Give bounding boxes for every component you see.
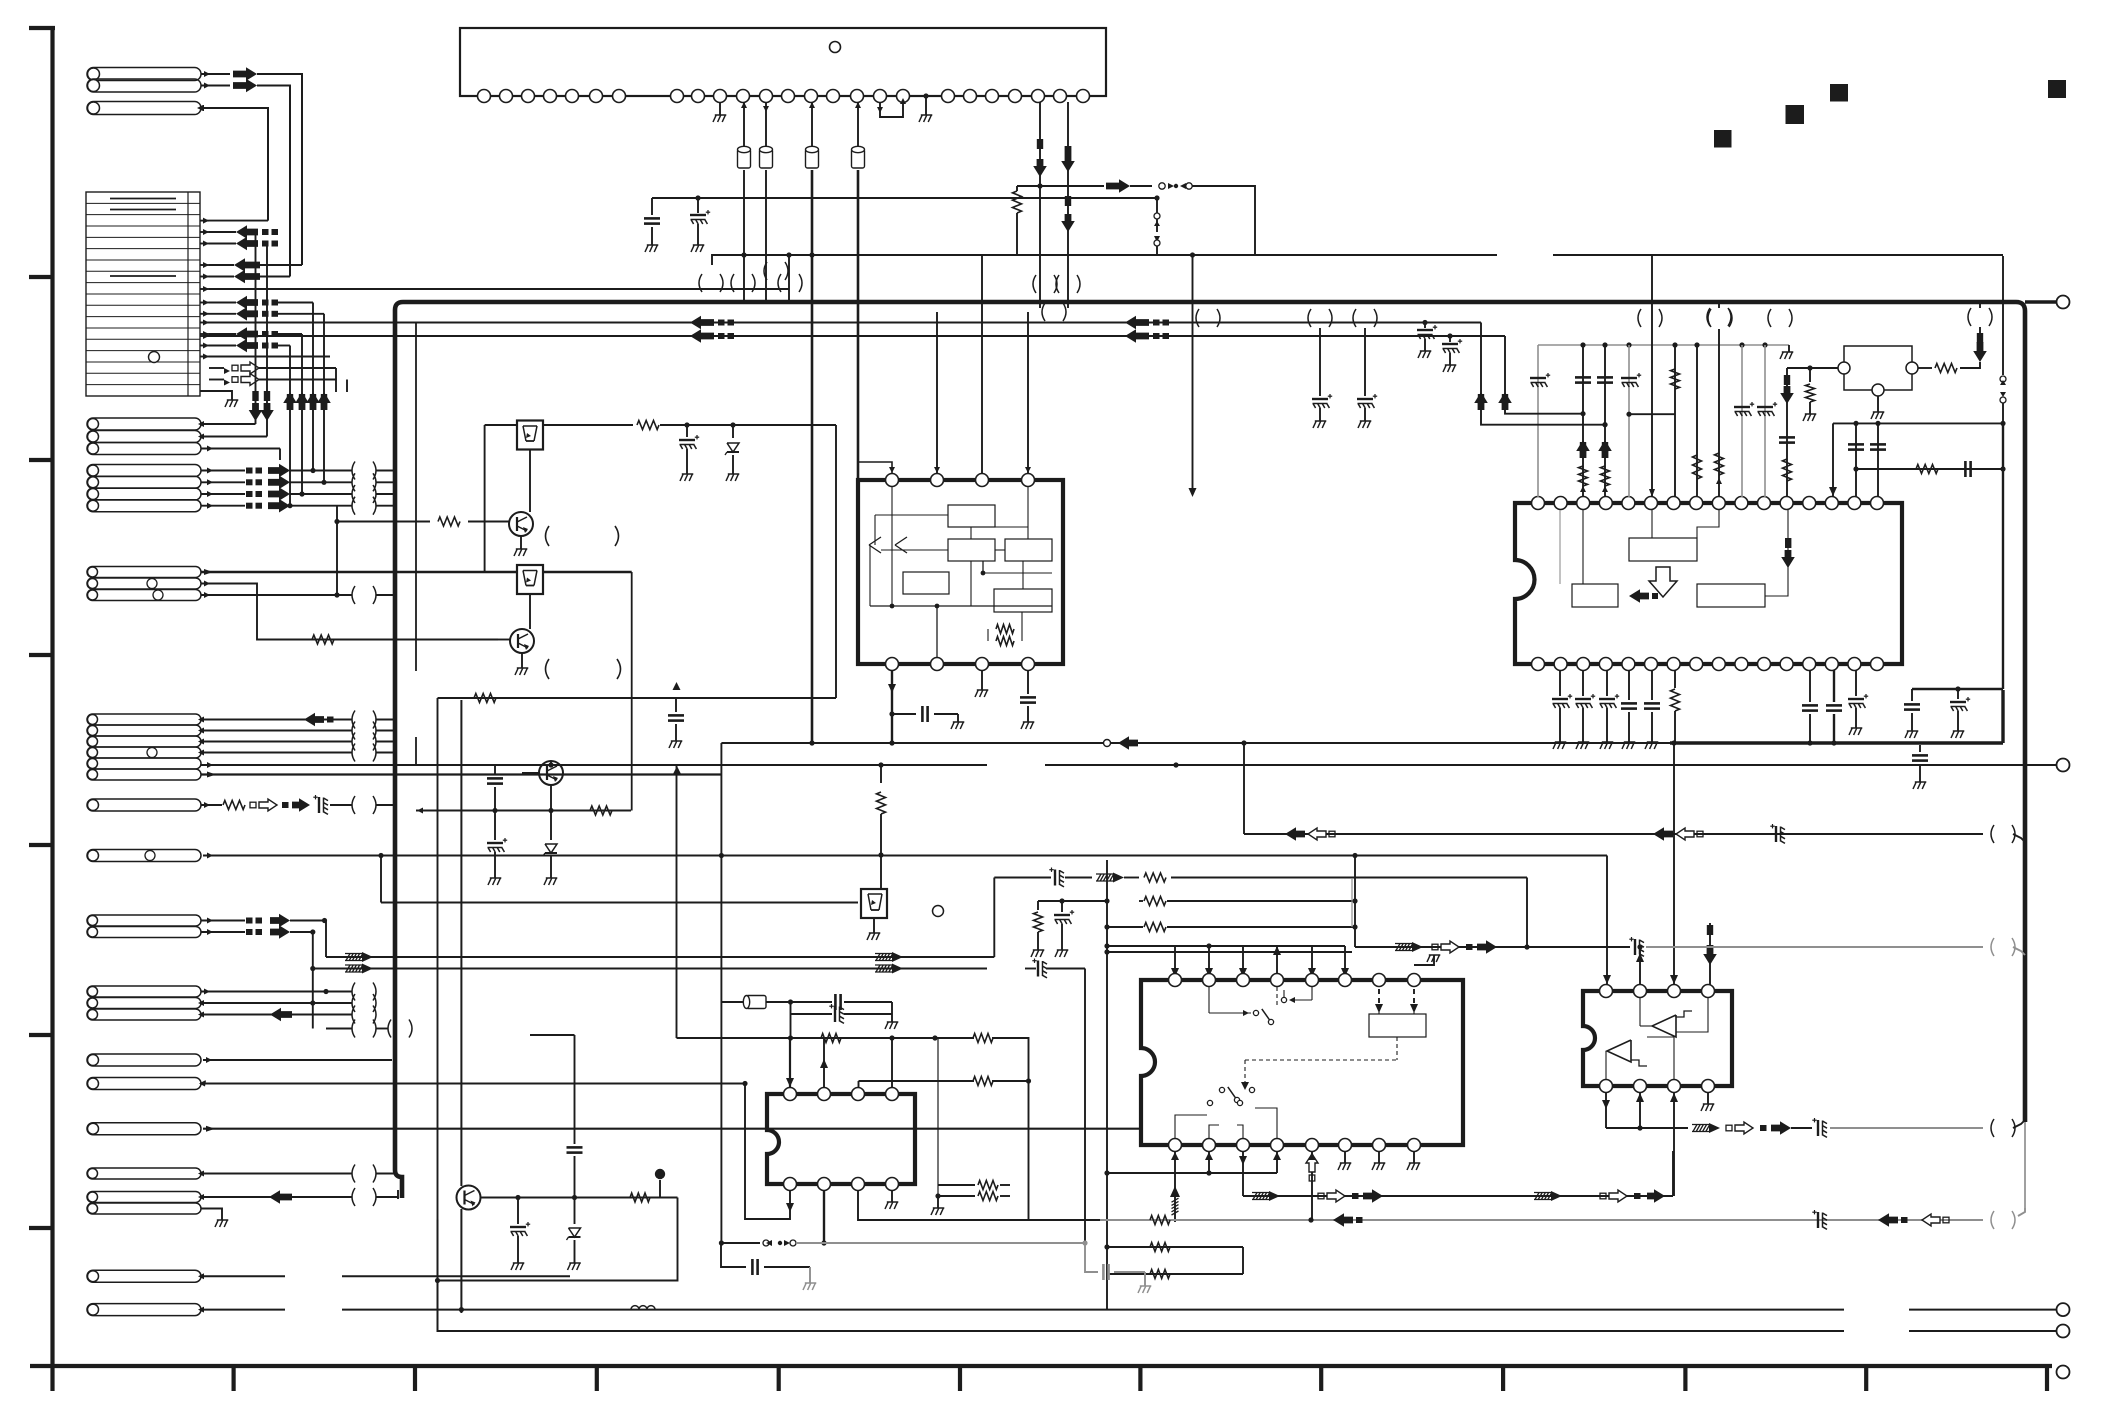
U3 internal open arrow xyxy=(1649,567,1677,597)
CN3 key lines xyxy=(110,198,176,200)
U3 bottom caps right xyxy=(1809,670,1811,702)
capacitor C13 xyxy=(892,713,916,715)
indicator circle inside U1 xyxy=(830,42,841,53)
U6 pin4 ground xyxy=(891,1190,893,1202)
CN15 row3 ground xyxy=(201,1209,222,1221)
capacitor C1 with ground xyxy=(651,198,653,215)
U3 bottom decoupling: electrolytics xyxy=(1559,670,1561,696)
transistor Q2 xyxy=(529,594,531,629)
CN11 row5 wire long xyxy=(201,764,416,766)
wire y952 plain xyxy=(1107,951,1352,953)
long wire y765 right segment xyxy=(1045,764,2056,766)
vertical rise wires from connector group B xyxy=(289,346,291,506)
U4 bottom pins xyxy=(1169,1139,1182,1152)
capacitor C32 xyxy=(834,994,837,1010)
vertical monitor stub x1192 xyxy=(1192,255,1194,488)
U3 bottom resistor to rail xyxy=(1674,670,1676,688)
wire to bus xyxy=(1192,186,1255,256)
electrolytic C33 xyxy=(791,1013,833,1015)
border ruler bottom xyxy=(30,1364,2052,1368)
power entry far right top xyxy=(1718,304,1720,308)
inline connector small circles xyxy=(1159,183,1165,189)
U5 top pins xyxy=(1600,985,1613,998)
U2 pin feed wires xyxy=(858,462,892,473)
hanging cap pair mid-span xyxy=(1422,320,1427,325)
connector pin CN6-2 xyxy=(87,578,201,589)
CN11 row2-4 wires xyxy=(201,730,352,732)
connector group CN11 xyxy=(87,714,201,725)
CN3 rows to bus arrows group3 xyxy=(200,302,209,304)
IC U1 microcontroller box xyxy=(460,28,1106,96)
U1 pin circles xyxy=(478,90,491,103)
U4 feed dashed xyxy=(1378,980,1380,1010)
wires CN4 xyxy=(201,423,256,425)
CN14 drop wires to pair xyxy=(326,1028,352,1030)
connector pin CN12 chain xyxy=(87,799,201,811)
U4 top pins xyxy=(1169,974,1182,987)
wire y927 resistor xyxy=(1107,926,1143,928)
CN3 long wires into block xyxy=(200,322,209,324)
long wire pair with fat left arrows upper xyxy=(204,322,1481,324)
annotation parens Q2 xyxy=(546,659,550,679)
vertical wire x437 xyxy=(437,698,439,1331)
CN5 wires with hatched fat arrows to coil pairs xyxy=(201,470,245,472)
U4 internal dashed routing xyxy=(1396,1037,1398,1060)
connector pin CN1-1 xyxy=(87,68,201,81)
U6 feed wires xyxy=(789,1038,791,1087)
U3 feed lines with electrolytics right xyxy=(1741,345,1743,497)
wire left feeds x1481 xyxy=(1481,323,1607,425)
resonator X1 xyxy=(743,102,745,147)
connector circle right y765 xyxy=(2057,759,2070,772)
connector pin CN2 xyxy=(87,102,201,115)
long wire y765 left segment xyxy=(416,764,987,766)
IC U2 box xyxy=(858,480,1063,664)
transistor Q5 in box xyxy=(861,889,887,918)
U4 internal switch block bottom xyxy=(1219,1087,1224,1092)
U6 pin2 wire to connector row xyxy=(823,1190,825,1243)
inline connector pairs row A xyxy=(699,274,702,292)
U5 feed arrows xyxy=(1606,856,1608,986)
spark gap protector xyxy=(1156,198,1158,213)
U6 top pins xyxy=(784,1088,797,1101)
wire pin22 to right header xyxy=(1040,185,1104,187)
IC U5 box xyxy=(1583,991,1732,1086)
electrolytic C12 with ground xyxy=(494,811,496,841)
U5 internal buffers xyxy=(1652,1015,1676,1037)
comparator block CP1 xyxy=(1844,346,1912,390)
CN6 row2 wire xyxy=(201,584,430,640)
capacitor C10 electrolytic xyxy=(686,425,688,437)
power entry top right xyxy=(1979,304,1981,308)
IC U4 box xyxy=(1141,980,1463,1145)
resistor R10 xyxy=(312,635,334,644)
U3 gray feed rail xyxy=(1538,344,1789,346)
wire y469 resistor cap link xyxy=(1856,468,2003,470)
U3 feed line 7 resistor low xyxy=(1696,345,1698,497)
CN3 row wires with fat left arrows group1 xyxy=(200,231,209,233)
wire y1083 long xyxy=(203,1083,745,1085)
Q7 base loop xyxy=(480,1197,678,1199)
black square marker 2 xyxy=(1786,105,1805,124)
connector pin CN10 xyxy=(87,1123,201,1135)
connector block CN3 xyxy=(86,192,200,396)
inline connector pairs row B xyxy=(1033,275,1036,293)
connector pin CN16 xyxy=(87,1270,201,1282)
wire y810 row xyxy=(416,810,631,812)
resistor network right of U6 xyxy=(937,1038,939,1196)
junction and ground right of U1 pins xyxy=(923,93,928,98)
connector group CN14 xyxy=(87,986,201,997)
connector pin CN5-4 xyxy=(87,500,201,512)
long wire y1309 xyxy=(342,1309,1844,1311)
U5 bottom wires xyxy=(1605,1092,1607,1128)
U3 feed down arrow line 14 xyxy=(1832,423,1834,497)
U6 pin1 loop wire xyxy=(745,1084,790,1220)
Q5 ground xyxy=(873,918,875,933)
Q3 base feed vertical xyxy=(484,425,486,572)
capacitor C31 top xyxy=(530,1034,575,1036)
wire y957 with hatched arrows xyxy=(326,956,994,958)
CP1 left wire resistor to ground xyxy=(1787,367,1838,369)
long wire lower with fat left arrows xyxy=(204,335,1505,337)
drop wire x1085 xyxy=(1084,969,1086,1244)
wire x462 drop xyxy=(460,700,462,1186)
bus thick horizontal with rounded corner xyxy=(395,302,2025,1122)
drop from pair 1365 with cap xyxy=(1364,328,1366,396)
drop from pair 1320 with cap xyxy=(1319,328,1321,396)
connector pin CN4-3 xyxy=(87,443,201,455)
U4 bottom pin wires xyxy=(1174,1151,1176,1222)
wire y855 long xyxy=(203,855,1607,857)
wire y834 long with left arrows xyxy=(1244,833,1983,835)
wire into Q5 box xyxy=(381,902,858,904)
gray supply row y1243 xyxy=(721,1242,760,1244)
transistor Q1 xyxy=(337,521,430,523)
annotation circle xyxy=(933,906,944,917)
wire y1060 feed xyxy=(203,1059,392,1061)
resistor network right of Q5 xyxy=(1038,900,1107,902)
CN3 white arrow rows xyxy=(209,367,224,369)
black square marker 4 xyxy=(2048,80,2066,98)
wire CN1-2 with fat arrow xyxy=(201,85,230,87)
resistor R2 on pin22 branch xyxy=(1013,191,1022,213)
connector pin CN6-1 xyxy=(87,567,201,578)
far right cap xyxy=(1919,745,1921,752)
CP1 right wire resistor xyxy=(1918,367,1932,369)
U3 feed line 1 with electrolytic xyxy=(1537,345,1539,497)
wire from U1 pin 24 with arrow down xyxy=(1067,102,1069,308)
U2 internal transistor pair xyxy=(875,514,948,516)
U4 feed verticals xyxy=(1174,946,1176,974)
black square marker 3 xyxy=(1830,84,1848,102)
long wire output row mid xyxy=(721,742,1670,744)
connector pin CN9 xyxy=(87,1078,201,1090)
U2 bottom pins xyxy=(886,658,899,671)
U4 internal register block xyxy=(1369,1014,1426,1037)
cap C22 on supply row xyxy=(1085,1243,1098,1272)
caps on y423 wire xyxy=(1855,423,1857,497)
U6 bottom pins xyxy=(784,1178,797,1191)
wire y968 with hatched arrows xyxy=(313,968,987,970)
resonator X4 xyxy=(857,102,859,147)
wire y1173 xyxy=(1107,1172,1277,1174)
wire y878 chain to resistor xyxy=(994,877,1051,879)
ground top right of U4 xyxy=(1414,955,1434,965)
zener D2 with ground xyxy=(550,811,552,841)
U3 feed line 5 from bus xyxy=(1651,256,1653,497)
capacitor C2 electrolytic with ground xyxy=(697,198,699,213)
resonator X3 xyxy=(811,102,813,147)
capacitor C11 xyxy=(494,764,496,775)
wire CN1-1 to bus with fat arrow xyxy=(201,73,230,75)
vertical drop wires to connector group A xyxy=(255,232,257,424)
IC U3 box xyxy=(1515,503,1902,664)
oscillator feedback resistors xyxy=(677,1037,975,1039)
electrolytic C30 with ground xyxy=(517,1198,519,1225)
U2 internal wires xyxy=(970,527,972,539)
bus thick vertical left xyxy=(395,310,402,1198)
U3 internal wires xyxy=(1651,510,1653,538)
Q3 collector wire right xyxy=(543,424,633,426)
Q2 emitter chain xyxy=(550,785,552,811)
resistor R12 xyxy=(438,697,837,699)
wire y1128 chain right xyxy=(1606,1127,1640,1129)
fat arrow right to connector row xyxy=(1106,179,1130,193)
connector pin CN17 xyxy=(87,1304,201,1316)
digital transistor Q4 box xyxy=(517,565,543,594)
CN3 plain row wires xyxy=(200,220,209,222)
U3 feed line 6 resistor xyxy=(1674,345,1676,497)
black square marker 1 xyxy=(1714,130,1732,148)
U3 feed line 2 cap fat-arrow resistor xyxy=(1582,345,1584,497)
ground pin 3 of U1 xyxy=(719,102,721,115)
U3 top pin circles xyxy=(1532,497,1545,510)
spark gap right bus xyxy=(2002,256,2004,375)
connector pin CN1-2 xyxy=(87,79,201,92)
U3 feed line 3 cap fat-arrow resistor xyxy=(1604,345,1606,497)
drop from y855 to transistor row xyxy=(880,855,882,890)
U3 internal fat down arrow xyxy=(1785,538,1791,548)
connector pin CN4-1 xyxy=(87,418,201,430)
resistor rows left of U4 xyxy=(1150,1216,1170,1225)
U3 internal fat arrow xyxy=(1629,589,1649,603)
U3 feed line 8 long with resistor xyxy=(1718,329,1720,497)
resistor R20 on x881 xyxy=(880,765,882,783)
fat down arrow to U5 xyxy=(1709,923,1711,985)
gray continuation of right bus xyxy=(2024,1122,2026,1208)
vertical x1107 xyxy=(1106,860,1108,946)
transistor Q2b xyxy=(539,761,563,785)
wire CN2 return xyxy=(204,108,268,221)
resonator X2 xyxy=(765,102,767,147)
vertical x416 xyxy=(415,323,417,672)
wire y1128 thick long xyxy=(203,1128,1141,1130)
U2 internal resistors xyxy=(996,625,1014,634)
wire to digital transistor Q3 xyxy=(485,424,517,426)
connector pin CN5-2 xyxy=(87,476,201,488)
U3 feed line 4 electrolytic xyxy=(1628,345,1630,497)
crystal oscillator X5 xyxy=(721,1001,744,1003)
CP1 ground xyxy=(1877,396,1879,412)
U3 internal blocks xyxy=(1629,538,1697,561)
CN11 row6 wire thick xyxy=(201,773,722,775)
U2 top pins xyxy=(886,474,899,487)
wire left feeds x1505 xyxy=(1505,336,1583,414)
connector group CN15 xyxy=(87,1168,201,1179)
connector group CN13 xyxy=(87,915,201,926)
U5 bottom pins xyxy=(1600,1080,1613,1093)
Q4 collector loop xyxy=(631,572,633,811)
wire from U1 pin 22 with arrows down xyxy=(1039,102,1041,308)
U6 pin3 wire xyxy=(858,1190,1100,1220)
CN3 big fat arrows group2 xyxy=(200,264,209,266)
capacitor C21 to ground xyxy=(721,1243,746,1267)
connector circle bottom-right xyxy=(2057,1366,2070,1379)
connector pin CN4-2 xyxy=(87,431,201,443)
connector pin CN5-3 xyxy=(87,488,201,500)
CN3 circle marker xyxy=(149,352,160,363)
vertical x1352 gray xyxy=(1351,878,1353,927)
U2 internal block diagram xyxy=(948,505,995,527)
wire y947 long with right arrows xyxy=(1352,853,1357,858)
border ruler left xyxy=(50,28,54,1391)
chain row y1196 xyxy=(1243,1195,1673,1197)
long wire y1331 xyxy=(438,1220,1845,1331)
wire y1220 gray long xyxy=(1100,1219,1983,1221)
thick vertical x722 xyxy=(720,743,722,1243)
wire x836 from Q3 row xyxy=(812,424,836,426)
transistor Q7 xyxy=(457,1186,481,1210)
connector pin CN8 xyxy=(87,1054,201,1066)
CN11 row1 wire fat arrow xyxy=(201,719,352,721)
wire right mid elbow xyxy=(1912,688,2003,690)
U2 bottom pin1 wire xyxy=(891,670,893,743)
U4 bottom grounds xyxy=(1344,1151,1346,1163)
top-right wire y423 xyxy=(1833,422,2003,424)
CN6 row3 wire to pair xyxy=(201,594,352,596)
wire U1 pin loop xyxy=(880,102,903,117)
annotation parens Q1 xyxy=(546,526,550,546)
connector pin CN5-1 xyxy=(87,465,201,477)
test point bullet 2 xyxy=(659,1180,661,1198)
drop wire x789 xyxy=(788,255,790,301)
CN3 ground lug xyxy=(200,391,232,400)
CN6 thick signal wire xyxy=(201,571,517,573)
diode D1 xyxy=(732,425,734,438)
zener D4 with ground xyxy=(574,1198,576,1225)
connector pin CN6-3 xyxy=(87,590,201,601)
resistor R11 xyxy=(637,421,659,430)
U2 bottom grounds xyxy=(981,670,983,690)
U3 bottom pin circles xyxy=(1532,658,1545,671)
inline connector pairs row C on bus xyxy=(1196,309,1199,327)
IC U6 box xyxy=(767,1094,915,1184)
wire y946 U4 feed xyxy=(1107,945,1345,947)
U3 bottom electrolytic right xyxy=(1855,670,1857,696)
capacitor C14 with ground xyxy=(673,682,681,690)
connector circle right top xyxy=(2057,296,2070,309)
transistor Q3 digital in box xyxy=(517,421,543,450)
wire node B4 to base xyxy=(336,506,338,595)
wire VCC node xyxy=(652,197,1157,199)
U4 internal switch block top xyxy=(1208,987,1210,1013)
U3 feed line 12 arrow cap resistor chain xyxy=(1786,368,1788,497)
inline connector pair top right xyxy=(1707,308,1710,326)
connector pin CN7 xyxy=(87,850,201,862)
U3 bottom caps xyxy=(1628,670,1630,700)
arrow stub on supply wire xyxy=(673,766,681,774)
bus wire horizontal mid xyxy=(712,255,1497,265)
